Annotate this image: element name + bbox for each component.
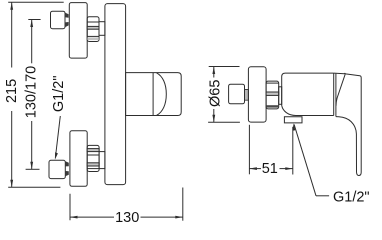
node top nut band 2 xyxy=(87,37,98,40)
node arrow dim130 left xyxy=(70,216,78,219)
node right pipe xyxy=(279,87,282,105)
node top union taper wedge upper xyxy=(65,13,69,18)
node right body outline xyxy=(282,73,334,115)
node arrow diam65 top xyxy=(212,67,215,75)
wire: dim 130 line left xyxy=(70,216,114,218)
node arrow 130/170 top xyxy=(30,20,33,28)
wire: dim diam65 vertical lower xyxy=(213,109,215,122)
node arrow dim51 right xyxy=(285,167,293,170)
node bottom nut band 2 xyxy=(87,163,99,166)
wire: dim 130/170 bottom tick xyxy=(26,168,40,170)
node top nut band 1 xyxy=(87,26,99,29)
wire: bottom nut line 2 xyxy=(87,168,99,170)
wire: housing cap line xyxy=(152,73,154,116)
wire: dim 51 line left xyxy=(249,168,261,170)
wire: G1/2 leader right view horizontal xyxy=(316,195,329,197)
wire: dim 215 vertical line lower xyxy=(11,111,13,187)
node right view flange xyxy=(248,67,266,122)
wire: dim 51 left extension xyxy=(248,125,250,175)
node bottom wall plate xyxy=(70,131,87,187)
wire: dim 215 top extension line xyxy=(8,1,64,3)
wire: dim 215 bottom extension line xyxy=(8,186,60,188)
wire: dim 130/170 top tick xyxy=(28,19,40,21)
node bottom nut band 1 xyxy=(87,149,99,152)
wire: dim 51 line right xyxy=(280,168,293,170)
node top union taper wedge lower xyxy=(65,22,69,27)
node handle xyxy=(334,73,362,175)
wire: dim 130 line right xyxy=(141,216,183,218)
wire: top nut line 1 xyxy=(87,21,99,23)
wire: G1/2 leader left view xyxy=(55,116,60,158)
node arrow G12 leader right view xyxy=(293,123,296,131)
node bottom union taper wedge upper xyxy=(65,161,69,166)
node bottom union nut xyxy=(87,145,99,171)
node right view nut xyxy=(266,81,279,109)
wire: dim 130 right extension xyxy=(182,188,184,221)
node arrow 130/170 bottom xyxy=(30,162,33,170)
wire: top nut line 2 xyxy=(87,35,99,37)
node top union knob xyxy=(51,11,66,29)
node bottom union knob xyxy=(49,160,65,178)
node left body column xyxy=(105,4,126,185)
node outlet xyxy=(284,117,302,123)
wire: dim 51 right extension xyxy=(292,127,294,175)
svg-text:G1/2": G1/2" xyxy=(333,189,370,205)
wire: dim diam65 bottom extension xyxy=(208,121,240,123)
wire: bottom nut line 1 xyxy=(87,154,99,156)
wire: dim diam65 vertical upper xyxy=(213,67,215,78)
node arrow dim130 right xyxy=(175,216,183,219)
wire: dim 215 vertical line upper xyxy=(11,2,13,67)
wire: dim 130/170 vertical lower xyxy=(31,121,33,169)
wire: G1/2 leader right view diagonal xyxy=(294,124,316,195)
wire: handle blade slant xyxy=(336,74,345,106)
node arrow 215 bottom xyxy=(10,180,13,188)
node top wall plate xyxy=(69,3,87,59)
node arrow 215 top xyxy=(10,2,13,10)
node left cartridge housing xyxy=(126,73,182,116)
svg-text:51: 51 xyxy=(262,161,278,177)
node top pipe xyxy=(99,22,105,36)
wire: dim diam65 top extension xyxy=(209,66,240,68)
svg-text:215: 215 xyxy=(4,79,20,103)
node arrow diam65 bottom xyxy=(212,115,215,123)
node arrow dim51 left xyxy=(249,167,257,170)
svg-text:G1/2": G1/2" xyxy=(51,76,67,113)
node bottom union taper wedge lower xyxy=(65,171,69,176)
svg-text:130: 130 xyxy=(115,210,139,226)
node right nut band 2 dark xyxy=(266,105,278,107)
node right view stem xyxy=(245,90,249,101)
wire: right nut line 1 xyxy=(266,82,279,84)
wire: body joint line A xyxy=(333,73,335,115)
svg-text:Ø65: Ø65 xyxy=(207,80,223,107)
wire: dim 130 left extension xyxy=(69,194,71,221)
node right nut band 1 xyxy=(266,92,279,95)
wire: dim 130/170 vertical upper xyxy=(31,20,33,64)
wire: stem thread hatch xyxy=(246,90,248,100)
wire: body joint line B xyxy=(335,74,337,117)
node bottom pipe xyxy=(99,152,105,169)
node top union nut xyxy=(87,17,99,42)
node right view knob xyxy=(229,84,245,104)
svg-text:130/170: 130/170 xyxy=(23,66,39,118)
node arrow G12 leader left view xyxy=(55,152,58,160)
node housing dome arc xyxy=(157,73,167,115)
